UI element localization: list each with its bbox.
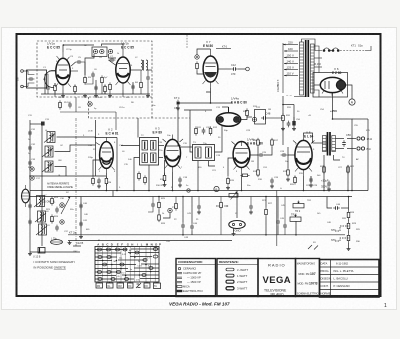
IFT1 wires (121, 118, 164, 191)
resistor R26 (158, 213, 161, 222)
rectifier output wire +250 (314, 85, 352, 108)
switch arm diagonal (61, 197, 70, 214)
electrolytic C50 (292, 117, 295, 126)
capacitor C63 (283, 223, 287, 230)
capacitor C60 (151, 202, 155, 209)
capacitor C4 (94, 85, 98, 92)
trimmer C49 (30, 176, 34, 180)
resistor R1 (54, 83, 57, 92)
resistor R3 (104, 84, 107, 93)
ground G10 (83, 94, 87, 98)
resistor R20 (294, 175, 297, 184)
switch matrix table (95, 247, 159, 283)
mains cord stub (365, 46, 371, 51)
capacitor C10 (109, 58, 116, 62)
capacitor C36 (55, 207, 59, 214)
oscillator coil L7 (37, 196, 45, 207)
model block MAGNETOFONO (296, 259, 320, 297)
capacitor C35 (28, 219, 32, 226)
IF transformer T3 can (193, 145, 215, 161)
data table (320, 260, 380, 298)
fuse F1 (302, 39, 339, 51)
capacitor C13 (91, 72, 95, 79)
tube V1a ECC85 (56, 52, 70, 90)
capacitor C9 (46, 85, 50, 92)
secondary wires to speaker (324, 139, 356, 166)
electrolytic C30 (327, 181, 331, 188)
switch matrix columns (98, 247, 155, 283)
capacitor C16 (97, 178, 101, 185)
capacitor C7 470 (231, 67, 238, 71)
AF line down (276, 191, 278, 247)
IF transformer T2 can (140, 138, 159, 166)
resistor R15 (227, 176, 230, 185)
capacitor C44 (190, 224, 194, 231)
EM80 wires (177, 49, 246, 103)
FM extra wires (45, 60, 148, 97)
svg-text:VEGA RADIO - Mod. FM 107: VEGA RADIO - Mod. FM 107 (169, 302, 230, 307)
transformer T1 secondary winding (311, 44, 315, 93)
secondary tap wires (314, 46, 322, 97)
aerial coil L4 (47, 132, 55, 143)
FM coil L2 (141, 60, 148, 71)
capacitor C18 (178, 177, 182, 184)
battery cell (38, 248, 45, 254)
node marker A (349, 99, 355, 105)
resistor R20b (240, 174, 249, 177)
dial lamp oval (51, 240, 63, 245)
resistor R6 (140, 80, 143, 89)
tube V1b ECC85 (116, 50, 130, 90)
resistor R21 (323, 165, 326, 174)
resistor R33 (138, 171, 141, 180)
output transformer T4 core (327, 132, 329, 156)
capacitor C20 (202, 128, 206, 135)
svg-text:1: 1 (384, 303, 387, 309)
left input bus (30, 120, 80, 252)
balun loop (45, 71, 54, 88)
resistor R14 (109, 82, 112, 91)
resistor R5 (84, 75, 87, 84)
trimmer C42 (168, 208, 172, 212)
NTC wires (327, 197, 349, 248)
tube V5 EL84 (295, 136, 312, 176)
ground G6 (270, 184, 274, 188)
node marker B (214, 186, 219, 191)
resistor R36 (175, 201, 178, 210)
capacitor C2 (28, 77, 35, 81)
V4a wires (184, 107, 252, 152)
switch contacts (308, 245, 318, 250)
antenna feed wires (23, 71, 34, 87)
resistor R10 (163, 173, 166, 182)
resistor R19 (287, 168, 290, 177)
legend table RESISTENZE (217, 259, 258, 297)
wires PSU to rails (324, 108, 368, 191)
ground G4 (97, 184, 101, 188)
resistor R25 (158, 200, 161, 209)
V4b wires (228, 147, 272, 191)
capacitor C46 (333, 206, 340, 210)
condensatori symbol marks (177, 267, 182, 292)
scattered value labels (31, 107, 357, 239)
capacitor C41 (79, 221, 83, 228)
drop wires (148, 197, 285, 235)
capacitor C40 (79, 203, 83, 210)
IFT2 wires (198, 126, 222, 191)
V3 wires (165, 103, 193, 191)
trimmer C22 (252, 117, 256, 121)
volume pot P1 (229, 192, 238, 200)
ferrite rod antenna (22, 185, 30, 207)
FM tuner shield dashed box (37, 41, 190, 118)
resistor R4 (196, 61, 199, 70)
capacitor C37 (55, 225, 59, 232)
trimmer C39 (60, 220, 64, 224)
osc switch arrows (34, 198, 47, 235)
capacitor C25 (258, 153, 265, 157)
tube pin stubs (55, 56, 343, 172)
aerial coil L5 (45, 146, 53, 157)
volume pot TR2 (290, 214, 301, 221)
ground G13 (249, 210, 253, 214)
terminal node T1 (187, 189, 190, 192)
tap voltage labels (287, 41, 294, 76)
band switch shaft dash-dot line (75, 118, 77, 246)
trimmer C38 (60, 203, 64, 207)
tube V7 EM80 magic eye (203, 49, 218, 88)
tone pot TR2 (293, 201, 304, 208)
antenna input box (27, 70, 47, 88)
trimmer C47 (30, 167, 34, 171)
tuning gang line (73, 197, 81, 247)
mains tap selector bracket (283, 43, 298, 93)
capacitor C5 (131, 84, 135, 91)
resistor R29 (347, 221, 350, 230)
trimmer C6 (195, 55, 199, 59)
tube V6 EZ80 rectifier (320, 77, 345, 92)
capacitor C62 (249, 204, 253, 211)
ground G5 (178, 183, 182, 187)
resistor R24 (51, 214, 54, 223)
switch matrix contact rows (95, 249, 159, 279)
trimmer C1 (93, 49, 97, 53)
trimmer C3 (108, 49, 112, 53)
ground G11 (108, 94, 112, 98)
antenna terminals (21, 70, 24, 73)
resistor R8 (105, 176, 108, 185)
capacitor C31 (28, 130, 32, 137)
capacitor C61 (197, 204, 201, 211)
trimmer C52 (88, 102, 92, 106)
capacitor C34 (28, 203, 32, 210)
resistor R37 (220, 200, 223, 209)
switch S1b dashed link (340, 50, 365, 52)
second label sprinkle (28, 45, 371, 253)
resistor R31 (282, 113, 285, 122)
resistor R27 (265, 207, 268, 216)
tube V4a EABC80 diode section (216, 107, 240, 126)
FM value labels (43, 56, 154, 99)
resistor R32 (59, 100, 62, 109)
resistor R12 (209, 126, 212, 135)
V5 wires (288, 133, 326, 191)
misc vertical drop wires (113, 191, 296, 235)
transformer T1 core (305, 40, 307, 97)
electrolytic blob (41, 122, 45, 126)
frame drop dashed lead (186, 35, 188, 48)
maker block RADIO VEGA (258, 259, 296, 297)
FM section wires (41, 44, 152, 94)
matrix footer boxes FM OL OM OC G FONO TA (96, 282, 161, 289)
extra ground symbols (163, 183, 167, 187)
ground G1 (61, 94, 65, 98)
FM lower wires (60, 78, 116, 130)
resistor R7 (92, 176, 95, 185)
detector shield box (255, 110, 266, 125)
tap arrows (283, 44, 286, 77)
heater rail KT2a (68, 234, 345, 236)
B+ rail (30, 190, 368, 192)
resistor R23 (51, 196, 54, 205)
trimmer box (92, 47, 107, 57)
transformer T1 primary winding (300, 42, 304, 95)
capacitor C43 (181, 223, 185, 230)
oscillator coil L9 (39, 224, 47, 235)
capacitor C53 (68, 102, 72, 109)
resistor R2 (74, 84, 77, 93)
resistor R16 (257, 138, 260, 147)
grid cap lines V1a (49, 70, 78, 72)
switch matrix contacts (97, 248, 158, 281)
coil switch arrows (42, 134, 55, 173)
ground G9 (347, 247, 351, 251)
capacitor C26 (270, 178, 274, 185)
ground G8 (232, 232, 236, 236)
rectifier box (313, 73, 348, 98)
ground G12 (197, 210, 201, 214)
V2 wires (30, 120, 117, 191)
resistor R9 (101, 75, 104, 84)
capacitor C33 (28, 160, 32, 167)
ground G2 (94, 94, 98, 98)
capacitor C11 (146, 75, 150, 82)
tube V4b EABC80 triode (233, 142, 250, 177)
resistor R11 (195, 126, 198, 135)
B+ feed wires (283, 96, 305, 145)
capacitor C45 (276, 219, 280, 226)
ground G7 (68, 241, 72, 245)
terminal node K (246, 67, 250, 71)
capacitor C28 (281, 153, 288, 157)
tube V3 EF89 (165, 135, 181, 173)
capacitor C48 (261, 116, 268, 120)
trimmer C2 (100, 49, 104, 53)
FONO wires (234, 210, 238, 232)
ground G3 (176, 106, 180, 110)
tube V2 ECH81 (100, 138, 114, 174)
resistor R22 (347, 165, 350, 174)
coil wires to V2 (30, 137, 96, 176)
FONO jack oval (229, 221, 245, 229)
KT6 stub wire (216, 48, 231, 50)
resistor R17 (271, 138, 274, 147)
border frame (17, 34, 381, 296)
capacitor C51 (287, 121, 291, 128)
heater rail KT2b (68, 240, 232, 242)
legend table CONDENSATORI (176, 259, 216, 297)
resistor R30 (347, 233, 350, 242)
aerial coil L6 (45, 161, 53, 172)
matrix micro annotations (114, 250, 151, 282)
oscillator coil L8 (38, 211, 46, 222)
AVC rail (30, 196, 352, 198)
resistor R34 (144, 175, 147, 184)
resistor R28 (347, 210, 350, 219)
resistor R18 (257, 168, 260, 177)
capacitor C56 (342, 140, 346, 147)
speaker terminals (357, 137, 365, 150)
capacitor C29 (309, 177, 313, 184)
capacitor C8 (76, 60, 83, 64)
resistor R13 (246, 108, 249, 117)
capacitor C32 (28, 145, 32, 152)
output transformer T4 windings (323, 136, 336, 152)
capacitor C74 (176, 100, 180, 107)
